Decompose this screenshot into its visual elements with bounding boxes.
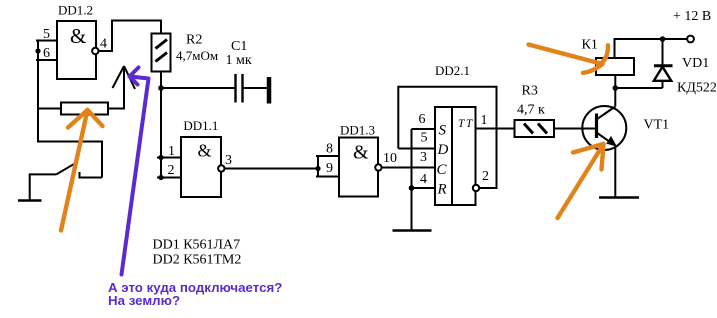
svg-text:9: 9 xyxy=(326,161,333,176)
wire: collector up to relay node xyxy=(614,88,616,107)
svg-text:DD1 К561ЛА7: DD1 К561ЛА7 xyxy=(153,238,241,253)
svg-text:D: D xyxy=(437,142,449,158)
switch SA contact xyxy=(80,172,103,178)
svg-text:6: 6 xyxy=(43,46,50,61)
wire: DD1.3 out to DD2.1 C input xyxy=(382,167,435,169)
node: junction dot pins 5-6 tie xyxy=(35,48,40,53)
wire: C1 right lead xyxy=(244,87,268,89)
svg-text:3: 3 xyxy=(420,150,427,165)
transistor VT1 xyxy=(582,106,626,150)
wire pin5 stub xyxy=(36,40,57,42)
node: DD1.1 output bubble pin 3 xyxy=(218,165,224,171)
resistor R3 xyxy=(515,120,555,137)
wire pin5 stub / D feedback xyxy=(398,148,435,150)
touch plate electrode E1 xyxy=(267,77,272,104)
NAND gate DD1.2 body xyxy=(57,21,96,79)
svg-text:4,7 к: 4,7 к xyxy=(517,103,545,118)
flip-flop DD2.1 body xyxy=(435,107,476,205)
svg-text:DD1.2: DD1.2 xyxy=(58,3,93,18)
wire pin6 stub xyxy=(412,128,436,130)
svg-text:VT1: VT1 xyxy=(644,118,670,133)
arrow to relay K1 xyxy=(529,45,603,65)
svg-text:S: S xyxy=(439,123,447,139)
svg-text:10: 10 xyxy=(383,151,397,166)
svg-text:ТТ: ТТ xyxy=(458,118,474,130)
node: DD1.1 pin2 junction xyxy=(158,175,163,180)
svg-text:&: & xyxy=(198,141,212,161)
svg-text:&: & xyxy=(70,24,86,48)
svg-text:R2: R2 xyxy=(186,33,202,48)
wire: R3 to VT1 base xyxy=(554,128,597,130)
wire: collector node to VD1 anode xyxy=(615,87,662,89)
wire: DD1.1 out to DD1.3 in xyxy=(225,168,319,170)
node: DD1.1 pin1 junction xyxy=(158,155,163,160)
svg-text:6: 6 xyxy=(419,112,426,127)
wire pin8 stub xyxy=(316,155,339,157)
ground under DD2.1 xyxy=(393,229,432,232)
svg-text:1: 1 xyxy=(481,113,488,128)
wire: node down to DD1.1 inputs xyxy=(160,88,162,178)
svg-text:DD2.1: DD2.1 xyxy=(435,63,470,78)
svg-text:8: 8 xyxy=(326,142,333,157)
NAND gate DD1.1 body xyxy=(181,137,221,197)
arrow to sensor resistor xyxy=(61,110,88,231)
wire: DD1.3 input tie bar xyxy=(317,156,319,177)
terminal +12V xyxy=(687,36,694,43)
svg-text:КД522: КД522 xyxy=(677,81,717,96)
svg-text:&: & xyxy=(353,142,369,164)
svg-text:R3: R3 xyxy=(522,84,538,99)
svg-text:DD1.3: DD1.3 xyxy=(340,123,375,138)
node: DD1.3 output bubble pin 10 xyxy=(375,164,381,170)
svg-text:5: 5 xyxy=(421,131,428,146)
annotation arrow (purple) xyxy=(122,68,149,275)
wire: DD1.2 output to top rail to R2 xyxy=(99,21,162,52)
svg-text:На землю?: На землю? xyxy=(108,293,180,308)
ground xyxy=(18,199,42,202)
wire: feedback loop Q-bar to D xyxy=(398,87,496,188)
svg-text:5: 5 xyxy=(43,27,50,42)
ground at emitter xyxy=(599,196,639,199)
svg-text:2: 2 xyxy=(168,163,175,178)
svg-text:C1: C1 xyxy=(231,39,247,54)
wire: pin1 Q output to R3 xyxy=(476,128,515,130)
relay K1 coil xyxy=(596,58,634,75)
node: pin4 junction dot xyxy=(409,185,415,191)
switch blade xyxy=(56,162,77,175)
node: DD2.1 pin2 bubble xyxy=(473,185,479,191)
node: R2/C1/DD1.1 junction xyxy=(158,85,164,91)
svg-text:DD1.1: DD1.1 xyxy=(183,118,218,133)
wire: +12V rail xyxy=(615,39,688,58)
node: collector junction dot xyxy=(613,85,619,91)
svg-text:+ 12 В: + 12 В xyxy=(673,9,711,24)
capacitor C1 xyxy=(234,74,236,103)
wire pin9 stub xyxy=(316,176,339,178)
wire: left lead of sensor resistor xyxy=(38,108,61,110)
node: +12V rail junction dot xyxy=(660,36,666,42)
svg-text:1 мк: 1 мк xyxy=(226,53,252,68)
wire: S-R tie vertical xyxy=(411,129,413,231)
svg-text:1: 1 xyxy=(168,144,175,159)
svg-text:4,7мОм: 4,7мОм xyxy=(176,48,218,63)
svg-text:4: 4 xyxy=(100,37,107,52)
resistor R2 xyxy=(152,34,171,72)
diode VD1 xyxy=(662,39,664,88)
resistor (sensor) under DD1.2 xyxy=(61,103,108,115)
annotation arrows (orange) xyxy=(61,45,608,231)
wire: DD1.2 inputs vertical down to lower network xyxy=(38,41,102,178)
arrow to transistor VT1 xyxy=(558,144,604,218)
wire: emitter down to ground xyxy=(614,145,616,197)
wire pin1 stub xyxy=(157,157,181,159)
svg-text:2: 2 xyxy=(482,169,489,184)
svg-text:DD2 К561ТМ2: DD2 К561ТМ2 xyxy=(153,253,242,268)
node: DD1.2 output bubble pin 4 xyxy=(92,48,98,54)
svg-text:R: R xyxy=(437,182,447,198)
wire: node to C1 xyxy=(161,87,235,89)
node: DD1.3 input junction dot xyxy=(315,166,320,171)
svg-text:К1: К1 xyxy=(582,38,598,53)
svg-text:4: 4 xyxy=(420,172,427,187)
wire: switch to ground xyxy=(30,174,57,199)
wire pin6 stub xyxy=(36,59,57,61)
wire: R2 bottom to node xyxy=(160,72,162,89)
svg-text:3: 3 xyxy=(225,153,232,168)
wire pin4 stub xyxy=(412,187,436,189)
wire: coil bottom to collector node xyxy=(614,75,616,88)
NAND gate DD1.3 body xyxy=(339,138,378,197)
svg-text:VD1: VD1 xyxy=(682,56,709,71)
wire pin2 stub xyxy=(157,177,181,179)
antenna electrode symbol xyxy=(108,66,124,109)
svg-text:C: C xyxy=(437,162,448,178)
